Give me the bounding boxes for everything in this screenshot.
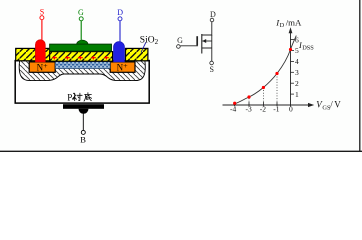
svg-text:4: 4 — [295, 57, 299, 66]
svg-text:3: 3 — [295, 68, 299, 77]
bottom page border — [0, 150, 362, 152]
svg-text:S: S — [210, 65, 214, 74]
dotted guide lines — [249, 74, 277, 105]
svg-text:2: 2 — [295, 79, 299, 88]
source metal electrode (red) — [35, 40, 45, 62]
terminal G : letter, circle, lead — [78, 8, 84, 41]
svg-text:+: + — [43, 61, 48, 70]
depletion tub hatched region — [19, 61, 145, 81]
red + charge marks in gate oxide — [52, 56, 109, 60]
right page border — [359, 0, 361, 152]
drain metal electrode (blue) — [114, 42, 125, 62]
svg-text:V: V — [334, 100, 341, 110]
y axis label ID/mA — [275, 18, 302, 30]
svg-text:+: + — [123, 61, 128, 70]
substrate bottom electrode bar — [63, 104, 104, 114]
svg-text:0: 0 — [289, 105, 293, 114]
N+ source diffusion (left) — [29, 61, 55, 73]
P substrate body box — [15, 61, 149, 104]
svg-text:D: D — [210, 10, 216, 19]
svg-text:G: G — [78, 8, 84, 17]
B terminal lead — [80, 110, 86, 145]
symbol gate lead wire — [180, 45, 198, 47]
y ticks and labels 1-6 — [291, 40, 295, 95]
transfer curve — [234, 36, 296, 104]
N channel strip (dotted) — [55, 62, 110, 69]
N+ drain diffusion (right) — [110, 61, 135, 73]
P substrate label: P — [67, 93, 72, 103]
right SiO2 band — [126, 48, 148, 60]
gate electrode hump — [77, 40, 88, 44]
svg-text:DSS: DSS — [302, 45, 314, 52]
symbol S terminal circle — [210, 61, 214, 65]
gate oxide under gate — [50, 52, 113, 62]
y axis ID — [289, 27, 293, 106]
svg-text:S: S — [40, 8, 44, 17]
symbol label S — [210, 65, 214, 74]
svg-text:D: D — [280, 22, 285, 29]
IDSS label — [298, 41, 314, 52]
symbol source wire — [202, 35, 212, 61]
red data dots on curve — [233, 48, 292, 105]
svg-text:P: P — [67, 93, 72, 103]
SiO2 leader line — [141, 43, 146, 53]
symbol bulk arrow (points to channel) — [202, 39, 212, 43]
x ticks — [234, 102, 277, 106]
svg-text:SiO2: SiO2 — [140, 36, 159, 47]
x tick labels — [230, 105, 293, 114]
svg-text:B: B — [80, 135, 86, 145]
left SiO2 band — [16, 48, 50, 60]
terminal D : letter, circle, lead — [117, 8, 123, 42]
symbol G terminal circle — [177, 45, 181, 49]
hanzi 衬 (drawn strokes) — [73, 93, 83, 101]
x axis VGS — [223, 103, 315, 107]
symbol drain lead wire — [202, 22, 212, 35]
svg-text:G: G — [177, 36, 183, 45]
svg-text:-4: -4 — [230, 105, 236, 114]
x axis label VGS/V — [316, 100, 341, 112]
symbol label G — [177, 36, 183, 45]
svg-text:D: D — [117, 8, 123, 17]
hanzi 底 (drawn strokes) — [84, 93, 91, 102]
svg-text:-2: -2 — [260, 105, 266, 114]
svg-text:/: / — [330, 100, 333, 110]
SiO2 label — [140, 36, 159, 47]
symbol D terminal circle — [210, 18, 214, 22]
svg-text:-1: -1 — [273, 105, 279, 114]
gate electrode bar G — [50, 44, 112, 51]
svg-text:-3: -3 — [246, 105, 252, 114]
symbol label D — [210, 10, 216, 19]
svg-text:1: 1 — [295, 90, 299, 99]
symbol gate bar — [196, 36, 198, 45]
terminal S : letter, circle, lead — [40, 8, 44, 40]
svg-text:/mA: /mA — [286, 18, 302, 28]
symbol channel line — [201, 34, 203, 54]
